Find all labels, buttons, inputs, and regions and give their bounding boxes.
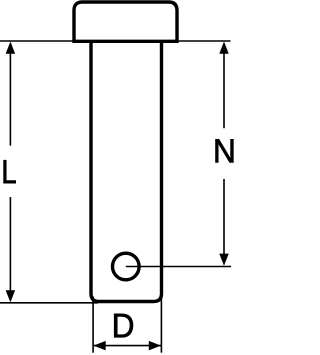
label N <box>216 139 234 162</box>
arrowhead N bottom <box>219 254 229 266</box>
extension line D right <box>160 297 162 353</box>
head of clevis pin <box>74 2 177 41</box>
extension line D left <box>92 297 94 353</box>
hole centerline to right <box>126 266 231 268</box>
extension line top (under head) <box>0 40 231 42</box>
arrowhead L bottom <box>6 290 16 302</box>
arrowhead D left <box>94 341 106 351</box>
arrowhead L top <box>6 42 16 54</box>
dimension line N <box>223 50 225 128</box>
arrowhead D right <box>149 341 161 351</box>
label D <box>114 314 133 338</box>
dimension line D <box>93 345 161 347</box>
label L <box>4 160 16 183</box>
shank of clevis pin <box>91 40 162 302</box>
dimension line L <box>9 50 11 146</box>
extension line bottom left (pin end) <box>0 302 98 304</box>
arrowhead N top <box>219 42 229 54</box>
hole in pin <box>113 253 140 280</box>
